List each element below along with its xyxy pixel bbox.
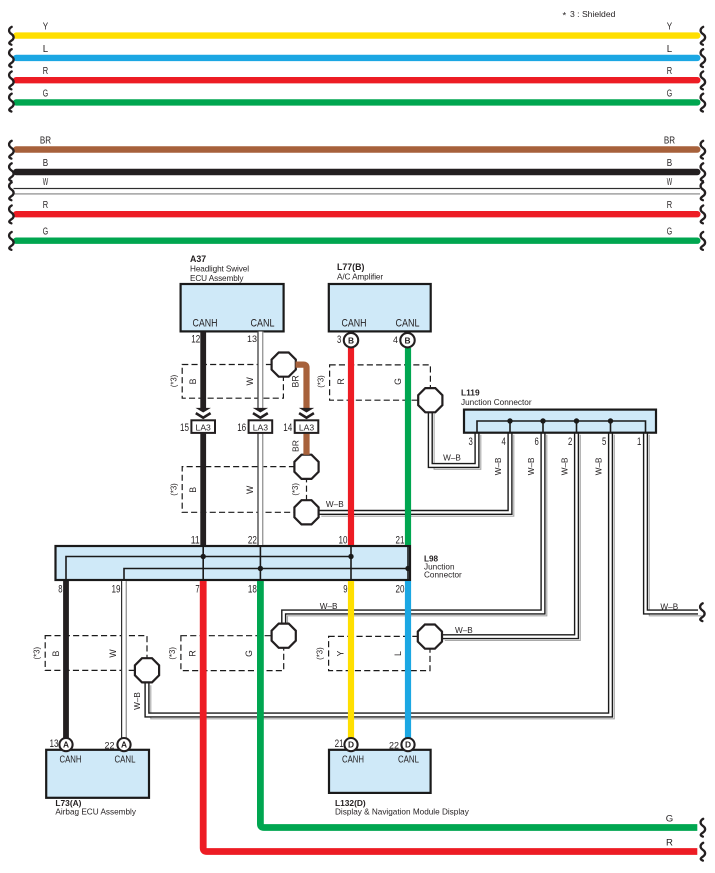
wire R (L98 pin 7 down, right to squiggle) — [203, 581, 697, 852]
svg-text:R: R — [187, 650, 197, 656]
splice LA3 (pin 14) — [283, 420, 318, 434]
svg-text:W–B: W–B — [320, 602, 338, 611]
svg-text:LA3: LA3 — [253, 422, 269, 432]
wire W-B shield drain: B/W octagon to L119 pin 5 — [147, 431, 614, 719]
wire W (LA3 16 to L98 pin 22) — [257, 433, 263, 545]
svg-text:D: D — [405, 740, 411, 750]
svg-text:12: 12 — [191, 333, 200, 345]
svg-text:W: W — [43, 177, 49, 188]
connector circle A (L73 pin 22) — [117, 738, 130, 751]
wire B (LA3 15 to L98 pin 11) — [200, 433, 206, 545]
svg-text:A/C Amplifier: A/C Amplifier — [337, 273, 383, 282]
wire BR (LA3 14 to octagon) — [303, 433, 309, 455]
wire W (L98 pin 19 to L73 pin 22) — [121, 581, 127, 738]
svg-text:(*3): (*3) — [32, 647, 41, 660]
svg-text:L77(B): L77(B) — [337, 262, 364, 272]
svg-text:4: 4 — [393, 335, 398, 345]
wire W (A37 CANL pin 13 down to arrow) — [257, 332, 263, 409]
wire L band y=57.9 — [9, 44, 705, 67]
wire R band y=80.2 — [9, 66, 705, 89]
shield dashed box (L77 wires) — [316, 365, 430, 400]
svg-text:18: 18 — [248, 584, 257, 596]
svg-text:L119: L119 — [461, 388, 480, 398]
svg-text:W–B: W–B — [443, 454, 461, 463]
svg-text:G: G — [43, 88, 48, 99]
svg-text:R: R — [336, 378, 346, 384]
svg-text:13: 13 — [247, 334, 257, 344]
svg-text:L132(D): L132(D) — [335, 798, 366, 808]
shield dashed box (A37 wires) — [169, 365, 300, 399]
arrow into LA3 at x=260.4 — [253, 408, 268, 418]
svg-text:21: 21 — [396, 534, 405, 546]
svg-text:W–B: W–B — [133, 692, 142, 710]
svg-text:19: 19 — [112, 584, 121, 596]
svg-text:8: 8 — [58, 584, 62, 596]
wire BR band y=149.5 — [9, 136, 705, 159]
svg-text:R: R — [43, 200, 48, 211]
svg-text:R: R — [667, 66, 672, 77]
svg-text:5: 5 — [602, 436, 606, 448]
wire G band y=240.7 — [9, 227, 705, 250]
octagon shield A37-BR — [272, 353, 296, 377]
svg-text:W: W — [245, 377, 255, 386]
svg-text:20: 20 — [396, 584, 405, 596]
svg-text:CANH: CANH — [60, 755, 82, 766]
svg-text:W–B: W–B — [494, 457, 503, 475]
svg-text:BR: BR — [664, 136, 675, 147]
svg-text:G: G — [667, 88, 672, 99]
svg-text:G: G — [393, 378, 403, 385]
svg-text:CANH: CANH — [193, 318, 218, 330]
svg-text:R: R — [666, 838, 673, 849]
svg-text:1: 1 — [637, 436, 641, 448]
ECU A37 box — [181, 254, 284, 345]
svg-text:3: 3 — [469, 436, 473, 448]
svg-text:D: D — [348, 740, 354, 750]
wire Y (L98 pin 9 to L132 pin 21) — [348, 581, 354, 738]
junction connector L98 box — [56, 534, 463, 595]
octagon shield chain lower — [294, 500, 318, 524]
wire B (A37 CANH pin 12 down to arrow) — [200, 332, 206, 409]
svg-text:G: G — [244, 650, 254, 657]
svg-text:Y: Y — [667, 22, 672, 33]
svg-text:CANH: CANH — [342, 318, 367, 330]
shield dashed box (Y/L wires) — [316, 636, 430, 670]
wire L (L98 pin 20 to L132 pin 22) — [405, 581, 411, 738]
wire G (L77 CANL pin 4 to L98 pin 21) — [405, 348, 411, 545]
svg-text:22: 22 — [248, 534, 257, 546]
svg-text:Display & Navigation Module Di: Display & Navigation Module Display — [335, 808, 470, 817]
wire W band y=191.1 — [9, 177, 705, 200]
ECU L132(D) Display box — [329, 738, 470, 817]
svg-text:(*3): (*3) — [168, 647, 177, 660]
shield dashed link between octagons — [291, 467, 307, 512]
wire BR (octagon to arrow) — [296, 365, 307, 409]
wire W-B shield drain: octagon chain to L119 pin 4 — [318, 431, 514, 516]
svg-text:CANL: CANL — [398, 755, 419, 766]
connector circle A (L73 pin 13) — [59, 738, 72, 751]
svg-text:(*3): (*3) — [169, 374, 178, 387]
svg-text:BR: BR — [40, 136, 51, 147]
svg-text:Y: Y — [43, 22, 48, 33]
wire G (L98 pin 18 down, right to squiggle) — [260, 581, 697, 828]
svg-text:L: L — [667, 44, 673, 55]
svg-text:9: 9 — [343, 584, 347, 596]
svg-text:W–B: W–B — [527, 457, 536, 475]
svg-text:G: G — [666, 814, 673, 825]
wire W-B shield drain: R/G octagon to L119 pin 6 — [284, 431, 547, 629]
octagon shield L119-3 — [418, 388, 442, 412]
svg-text:W: W — [245, 485, 255, 494]
wire G band y=102.4 — [9, 88, 705, 111]
svg-text:CANL: CANL — [396, 318, 420, 330]
ECU L73(A) Airbag box — [46, 738, 149, 817]
svg-text:4: 4 — [502, 436, 506, 448]
connector circle B (L77 pin 4) — [400, 333, 414, 347]
svg-text:21: 21 — [335, 738, 344, 750]
svg-text:11: 11 — [191, 534, 200, 546]
wire Y band y=35.6 — [9, 22, 705, 45]
svg-text:LA3: LA3 — [196, 422, 212, 432]
svg-text:BR: BR — [291, 375, 301, 387]
svg-text:L: L — [43, 44, 49, 55]
wire R (L77 CANH pin 3 to L98 pin 10) — [348, 348, 354, 545]
svg-text:W: W — [108, 649, 118, 658]
connector circle B (L77 pin 3) — [344, 333, 358, 347]
svg-text:G: G — [43, 227, 48, 238]
wire W-B shield drain: Y/L octagon to L119 pin 2 — [441, 431, 580, 641]
svg-text:W–B: W–B — [595, 457, 604, 475]
svg-text:16: 16 — [237, 422, 246, 434]
svg-text:22: 22 — [104, 741, 114, 751]
svg-text:(*3): (*3) — [316, 647, 325, 660]
connector circle D (L132 pin 21) — [344, 738, 357, 751]
svg-text:W–B: W–B — [561, 457, 570, 475]
octagon shield Y/L — [418, 625, 442, 649]
svg-text:A: A — [63, 740, 69, 750]
svg-text:CANL: CANL — [251, 318, 275, 330]
svg-text:Junction Connector: Junction Connector — [461, 398, 532, 407]
svg-text:B: B — [348, 335, 354, 345]
svg-text:W: W — [667, 177, 673, 188]
svg-text:W–B: W–B — [660, 602, 678, 611]
octagon shield L73 — [135, 658, 159, 682]
svg-text:L73(A): L73(A) — [55, 798, 81, 808]
svg-text:B: B — [188, 378, 198, 384]
shield dashed box (L73 wires) — [32, 636, 147, 671]
connector circle D (L132 pin 22) — [401, 738, 414, 751]
svg-text:13: 13 — [50, 738, 59, 750]
svg-text:14: 14 — [283, 422, 292, 434]
svg-text:L: L — [393, 651, 403, 656]
svg-text:7: 7 — [195, 584, 199, 596]
wire R band y=214.2 — [9, 200, 705, 223]
svg-text:Headlight Swivel: Headlight Swivel — [190, 265, 249, 274]
svg-text:BR: BR — [291, 440, 301, 452]
svg-text:3 : Shielded: 3 : Shielded — [570, 9, 616, 19]
svg-text:10: 10 — [339, 534, 348, 546]
svg-text:ECU Assembly: ECU Assembly — [190, 274, 244, 283]
svg-text:(*3): (*3) — [169, 483, 178, 496]
svg-text:3: 3 — [337, 334, 341, 346]
svg-text:2: 2 — [568, 436, 572, 448]
svg-text:CANL: CANL — [115, 755, 136, 766]
ECU L77(B) A/C Amplifier box — [329, 262, 431, 346]
svg-text:*: * — [563, 10, 567, 21]
svg-text:6: 6 — [535, 436, 539, 448]
wire B band y=172.0 — [9, 158, 705, 181]
svg-text:R: R — [667, 200, 672, 211]
svg-text:B: B — [43, 158, 48, 169]
svg-text:R: R — [43, 66, 48, 77]
wire B (L98 pin 8 to L73 pin 13) — [63, 581, 69, 738]
shield dashed box (R/G wires) — [168, 636, 284, 671]
svg-text:W–B: W–B — [326, 500, 344, 509]
svg-text:22: 22 — [389, 741, 399, 751]
svg-text:B: B — [667, 158, 672, 169]
svg-text:G: G — [667, 227, 672, 238]
junction connector L119 box — [461, 388, 656, 448]
svg-text:A37: A37 — [190, 254, 206, 264]
svg-text:Connector: Connector — [424, 571, 462, 580]
svg-text:(*3): (*3) — [316, 375, 325, 388]
shield dashed U (mid B/W wires) — [169, 467, 295, 513]
svg-text:B: B — [404, 335, 410, 345]
svg-text:Airbag ECU Assembly: Airbag ECU Assembly — [55, 808, 136, 817]
svg-text:CANH: CANH — [342, 755, 364, 766]
svg-text:B: B — [51, 650, 61, 656]
octagon shield R/G — [272, 624, 296, 648]
svg-text:Y: Y — [336, 651, 346, 657]
wire W-B shield drain: octagon to L119 pin 3 — [430, 410, 481, 469]
svg-text:B: B — [188, 487, 198, 493]
svg-text:W–B: W–B — [455, 626, 473, 635]
svg-text:(*3): (*3) — [291, 483, 300, 496]
svg-text:LA3: LA3 — [299, 422, 315, 432]
svg-text:15: 15 — [180, 422, 189, 434]
splice LA3 (pin 16) — [237, 420, 272, 434]
arrow into LA3 at x=203.2 — [196, 408, 211, 418]
splice LA3 (pin 15) — [180, 420, 215, 434]
wire W-B: L119 pin 1 to right squiggle — [646, 431, 702, 616]
arrow into LA3 at x=306.5 — [299, 408, 314, 418]
svg-text:A: A — [121, 740, 127, 750]
octagon shield chain upper — [294, 455, 318, 479]
